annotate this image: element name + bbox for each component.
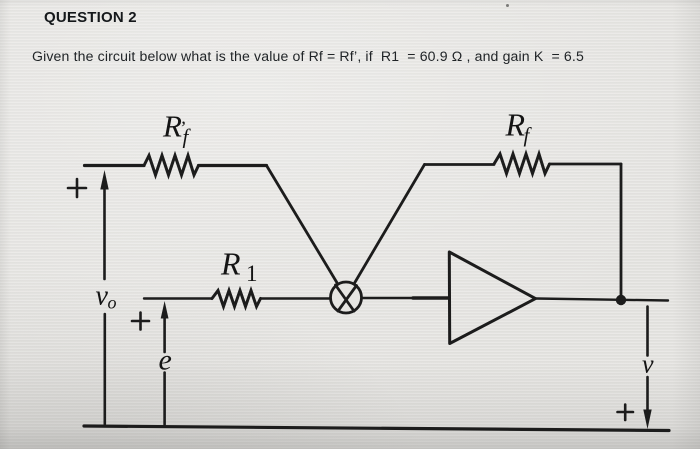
plus sign v <box>618 405 634 421</box>
op-amp triangle <box>449 252 535 344</box>
wire R1 left segment <box>144 297 212 299</box>
svg-text:R: R <box>505 107 526 143</box>
heading QUESTION 2 <box>44 9 137 26</box>
summing junction circle <box>331 282 362 313</box>
arrowhead vo <box>100 170 108 190</box>
resistor Rf <box>494 154 550 174</box>
wire e vertical upper <box>163 317 166 352</box>
wire Rf to right corner <box>550 163 622 166</box>
svg-text:1: 1 <box>246 261 258 286</box>
wire summer to amplifier <box>362 297 450 300</box>
svg-text:f: f <box>524 123 533 147</box>
wire vo vertical upper <box>103 190 106 279</box>
question text <box>32 48 584 64</box>
plus sign e <box>132 313 149 330</box>
svg-text:v: v <box>642 350 654 379</box>
plus sign vo <box>68 179 86 197</box>
wire diagonal left into summer <box>267 166 355 312</box>
wire R1 to summer <box>262 297 331 300</box>
resistor R'f <box>144 156 199 176</box>
wire vo vertical lower <box>104 314 107 424</box>
wire diagonal right into summer <box>338 165 425 312</box>
svg-text:f: f <box>183 125 192 149</box>
arrowhead v <box>643 410 651 430</box>
wire v vertical lower <box>646 377 649 410</box>
arrowhead e <box>161 301 169 319</box>
wire e vertical lower <box>163 373 166 425</box>
wire Rf top horizontal left part <box>425 163 495 166</box>
wire right vertical <box>620 164 623 300</box>
wire top-left horizontal <box>85 164 145 167</box>
resistor R1 <box>212 291 261 307</box>
wire v vertical upper <box>646 307 649 356</box>
svg-text:R: R <box>220 246 241 282</box>
wire thick segment before amplifier <box>413 296 448 300</box>
wire from R'f to bend <box>199 164 267 167</box>
wire bottom rail <box>84 426 669 431</box>
node output dot <box>616 295 626 305</box>
svg-text:e: e <box>159 344 172 377</box>
wire amplifier output <box>536 299 668 301</box>
svg-text:o: o <box>108 293 117 313</box>
